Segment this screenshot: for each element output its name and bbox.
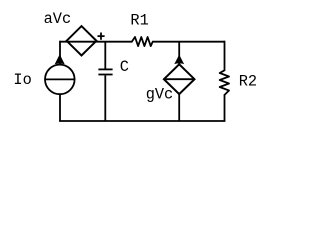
gVc diamond chord (164, 78, 195, 80)
current source Io arrowhead (55, 54, 65, 64)
resistor R2 zigzag (220, 70, 229, 95)
svg-text:R2: R2 (239, 73, 257, 91)
svg-text:Io: Io (13, 71, 31, 89)
wire left rail lower (Io circle bottom to bottom rail) (59, 94, 61, 121)
plus polarity mark of aVc (98, 33, 105, 40)
gVc arrowhead (174, 55, 184, 65)
capacitor C top plate (98, 68, 112, 70)
dependent current source gVc diamond (164, 64, 195, 94)
svg-text:aVc: aVc (44, 10, 72, 28)
current source Io chord (45, 78, 75, 80)
svg-text:gVc: gVc (146, 85, 174, 103)
wire right rail upper (corner to R2) (224, 41, 226, 71)
dependent voltage source aVc diamond (67, 26, 97, 55)
wire top rail left segment through aVc diamond (60, 41, 132, 43)
capacitor C bottom plate (98, 74, 112, 76)
wire top rail right segment from R1 to top-right corner (153, 41, 225, 43)
wire gVc branch upper (T junction down to diamond) (178, 42, 180, 65)
current source Io circle (45, 65, 75, 95)
svg-text:R1: R1 (130, 11, 148, 29)
wire capacitor branch lower (104, 75, 106, 121)
wire bottom rail (59, 120, 225, 122)
wire right rail lower (R2 to bottom rail) (224, 95, 226, 121)
svg-text:C: C (120, 58, 129, 76)
resistor R1 zigzag (132, 37, 153, 46)
wire gVc branch lower (diamond bottom to bottom rail) (178, 94, 180, 121)
wire capacitor branch upper (104, 42, 106, 69)
wire left rail upper (corner down to Io circle top) (59, 41, 61, 65)
